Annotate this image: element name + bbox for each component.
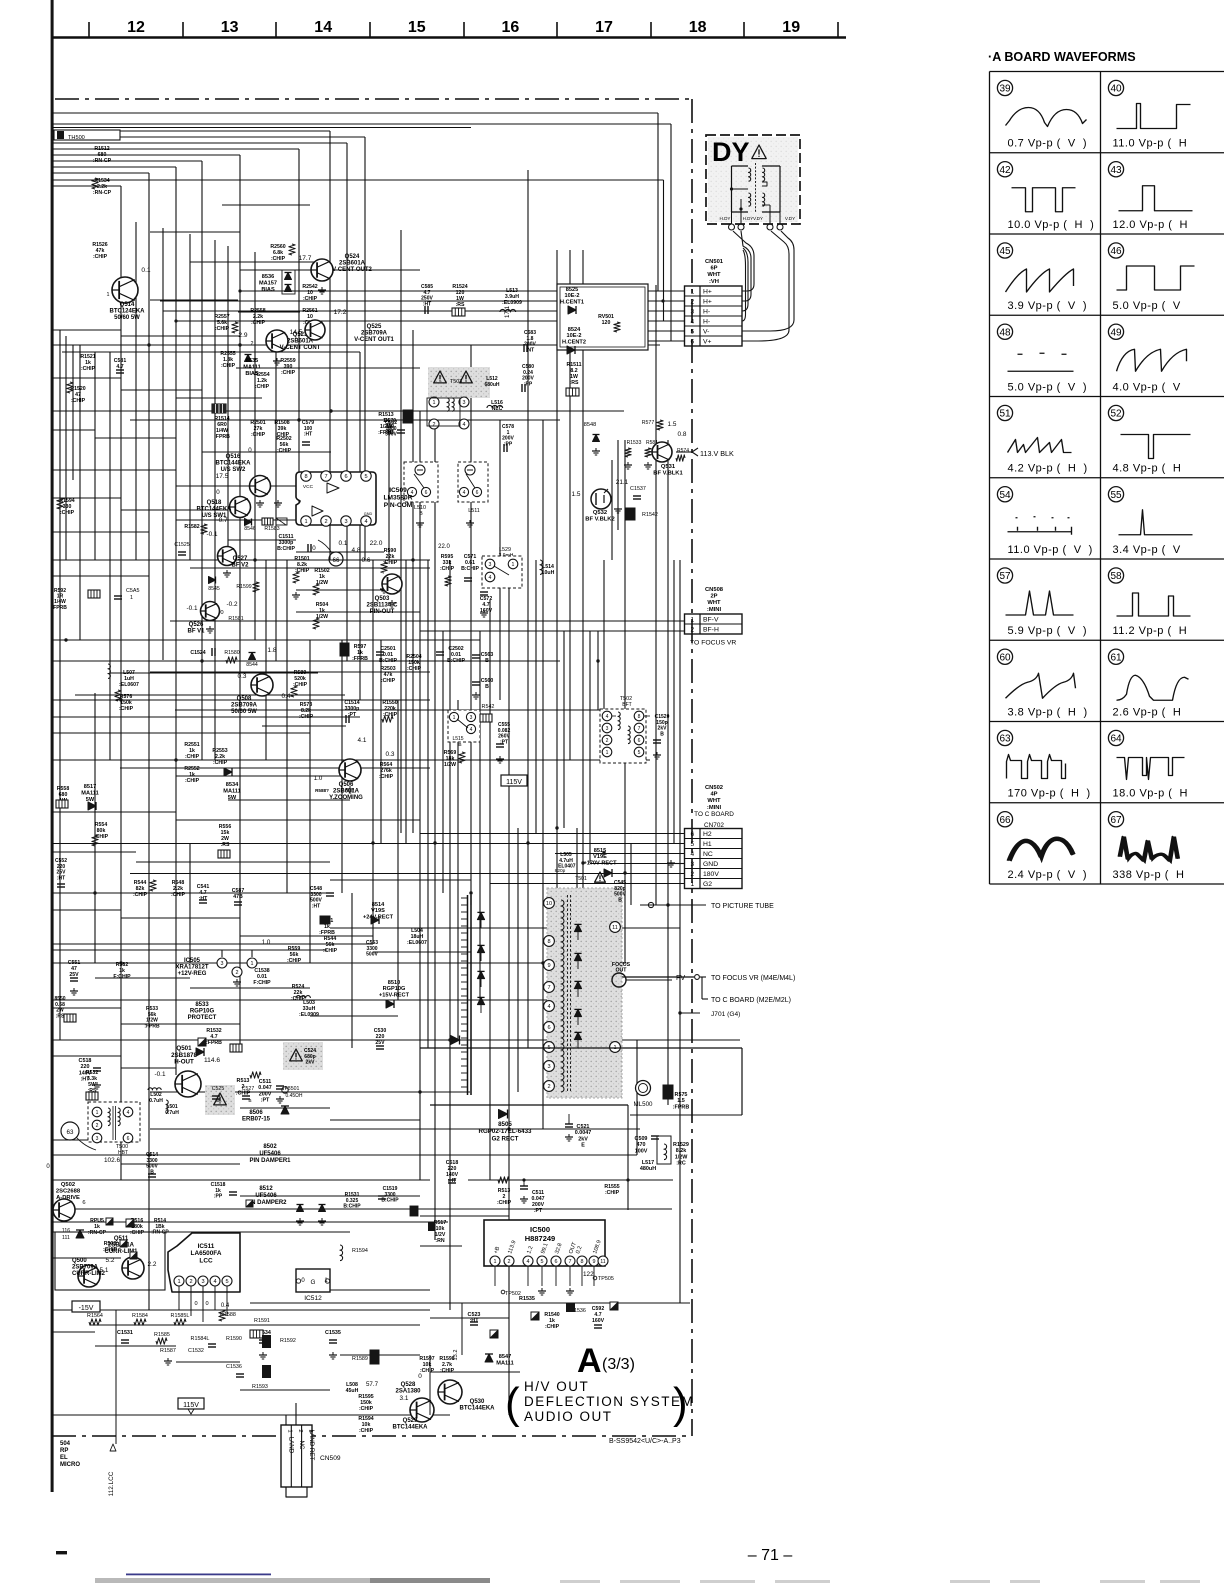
svg-text:6: 6	[690, 339, 694, 346]
svg-text:F:CHIP: F:CHIP	[113, 974, 131, 980]
svg-text:114.6: 114.6	[204, 1057, 220, 1064]
svg-text:338 Vp-p ( H: 338 Vp-p ( H	[1113, 869, 1185, 881]
svg-text:4.1: 4.1	[358, 737, 367, 744]
svg-text:BF V.BLK1: BF V.BLK1	[653, 470, 683, 476]
svg-text:64: 64	[1110, 734, 1122, 745]
svg-text:120: 120	[602, 320, 611, 326]
svg-text:BF-V: BF-V	[703, 617, 719, 624]
svg-text:LA6500FA: LA6500FA	[191, 1250, 222, 1257]
svg-text:4: 4	[213, 1279, 216, 1285]
svg-text:58: 58	[1110, 571, 1122, 582]
svg-text:0: 0	[205, 1301, 208, 1307]
svg-text:820p: 820p	[555, 868, 566, 874]
svg-text:5.1: 5.1	[100, 1267, 109, 1274]
svg-text::RN-CP: :RN-CP	[93, 190, 112, 196]
svg-text:Q528: Q528	[401, 1382, 416, 1388]
svg-text:-0.1: -0.1	[186, 605, 197, 612]
svg-text:49: 49	[1110, 327, 1122, 338]
svg-text::FPRB: :FPRB	[214, 434, 230, 440]
svg-text:5.0 Vp-p ( V ): 5.0 Vp-p ( V )	[1008, 381, 1088, 393]
svg-text:66: 66	[333, 557, 340, 564]
svg-text:54: 54	[999, 490, 1011, 501]
svg-text:63: 63	[67, 1129, 74, 1136]
svg-text:1.5: 1.5	[677, 1098, 685, 1104]
svg-text:4: 4	[527, 1259, 530, 1265]
svg-text:8514: 8514	[372, 902, 385, 908]
svg-text:4: 4	[463, 490, 466, 496]
svg-text:R1529: R1529	[673, 1142, 689, 1148]
svg-text:L511: L511	[468, 508, 480, 514]
svg-text:TO C BOARD: TO C BOARD	[694, 811, 734, 818]
svg-text:8517: 8517	[84, 784, 96, 790]
svg-text:3: 3	[344, 519, 347, 525]
svg-text:R575: R575	[675, 1092, 688, 1098]
svg-text:Q516: Q516	[226, 454, 241, 460]
svg-text:Q518: Q518	[207, 500, 222, 506]
svg-text:IC509: IC509	[389, 487, 407, 494]
svg-text:57: 57	[999, 571, 1011, 582]
svg-text:NC: NC	[298, 1441, 305, 1450]
svg-text:BIAS: BIAS	[261, 287, 275, 293]
svg-text:EL: EL	[60, 1455, 68, 1461]
svg-text:TO C BOARD (M2E/M2L): TO C BOARD (M2E/M2L)	[711, 997, 791, 1004]
svg-text:NC: NC	[703, 851, 713, 858]
svg-text:TH500: TH500	[68, 135, 85, 141]
svg-text:4P: 4P	[710, 792, 717, 798]
svg-text:H.CENT1: H.CENT1	[560, 299, 584, 305]
svg-text::MINI: :MINI	[707, 805, 722, 811]
svg-text:0.3: 0.3	[238, 673, 247, 680]
svg-text:2.6 Vp-p ( H: 2.6 Vp-p ( H	[1113, 706, 1182, 718]
svg-text:Q529: Q529	[403, 1418, 418, 1424]
svg-text:8505: 8505	[498, 1121, 512, 1128]
svg-text:H.CENT2: H.CENT2	[562, 339, 586, 345]
svg-text:8: 8	[547, 939, 550, 945]
svg-text:42: 42	[999, 165, 1011, 176]
svg-text:11.2 Vp-p ( H: 11.2 Vp-p ( H	[1113, 625, 1188, 637]
svg-text:45uH: 45uH	[346, 1388, 359, 1394]
svg-text:CN509: CN509	[320, 1455, 341, 1462]
svg-text:2SB709A: 2SB709A	[361, 331, 388, 337]
svg-text:Q530: Q530	[470, 1399, 485, 1405]
svg-text::CHIP: :CHIP	[323, 948, 338, 954]
svg-text:R1564: R1564	[87, 1313, 103, 1319]
svg-text::CHIP: :CHIP	[287, 958, 302, 964]
svg-text:5: 5	[541, 1259, 544, 1265]
svg-text:(3/3): (3/3)	[602, 1356, 635, 1373]
svg-text:57.7: 57.7	[366, 1381, 379, 1388]
svg-text:3.4 Vp-p ( V: 3.4 Vp-p ( V	[1113, 544, 1181, 556]
svg-text:100V: 100V	[635, 1148, 648, 1154]
svg-text:116: 116	[62, 1228, 70, 1234]
svg-text:DEFLECTION SYSTEM: DEFLECTION SYSTEM	[524, 1394, 694, 1409]
svg-text:2kV: 2kV	[306, 1060, 316, 1066]
svg-text::CHIP: :CHIP	[277, 448, 292, 454]
svg-text:V+: V+	[703, 339, 712, 346]
svg-text:0: 0	[194, 1301, 197, 1307]
svg-text:10: 10	[546, 901, 552, 907]
svg-text:0.4: 0.4	[221, 1303, 230, 1309]
svg-text:5W: 5W	[86, 797, 95, 803]
svg-text:B:CHIP: B:CHIP	[447, 658, 465, 664]
svg-text::HT: :HT	[470, 1318, 480, 1324]
svg-text:V.DY: V.DY	[753, 216, 763, 221]
svg-text:MICRO: MICRO	[60, 1462, 80, 1468]
svg-text:BF V1: BF V1	[187, 629, 205, 635]
svg-text:C1535: C1535	[325, 1330, 341, 1336]
svg-text:A: A	[577, 1342, 602, 1380]
svg-text:12.0 Vp-p ( H: 12.0 Vp-p ( H	[1113, 219, 1188, 231]
svg-text:BTC144EKA: BTC144EKA	[196, 507, 232, 513]
svg-text:9: 9	[593, 1259, 596, 1265]
svg-text:5: 5	[690, 841, 694, 848]
svg-text:Q524: Q524	[345, 254, 360, 260]
svg-text:F:CHIP: F:CHIP	[253, 980, 271, 986]
svg-text:1: 1	[690, 617, 694, 624]
svg-text:IC511: IC511	[198, 1243, 215, 1250]
svg-text:6: 6	[555, 1259, 558, 1265]
svg-text:6: 6	[690, 831, 694, 838]
svg-text:6: 6	[476, 490, 479, 496]
svg-text::FPRB: :FPRB	[673, 1104, 690, 1110]
svg-text:-0.2: -0.2	[226, 601, 237, 608]
svg-text:2kV: 2kV	[578, 1136, 588, 1142]
svg-text:T503: T503	[450, 379, 462, 385]
svg-text:3.1: 3.1	[400, 1395, 409, 1402]
svg-text:C521: C521	[577, 1124, 590, 1130]
svg-text:NLC: NLC	[492, 406, 503, 412]
svg-text:R1599: R1599	[236, 584, 251, 590]
svg-text:63: 63	[999, 734, 1011, 745]
svg-text:170 Vp-p ( H ): 170 Vp-p ( H )	[1008, 788, 1091, 800]
svg-text:BF V2: BF V2	[231, 563, 249, 569]
svg-text:B:CHIP: B:CHIP	[461, 566, 479, 572]
svg-text:B: B	[660, 731, 664, 737]
svg-text:8510: 8510	[388, 980, 400, 986]
svg-text:GND: GND	[364, 512, 373, 516]
svg-text::CHIP: :CHIP	[497, 1200, 512, 1206]
svg-text:2: 2	[96, 1123, 99, 1129]
svg-text::CHIP: :CHIP	[379, 774, 394, 780]
svg-text:V-: V-	[703, 329, 709, 336]
svg-text:22.0: 22.0	[438, 544, 450, 550]
svg-text:47B: 47B	[233, 894, 243, 900]
svg-text:C511: C511	[259, 1079, 272, 1085]
svg-text:17.7: 17.7	[299, 255, 312, 262]
svg-text:5.0 Vp-p ( V: 5.0 Vp-p ( V	[1113, 300, 1181, 312]
svg-text:R1580: R1580	[224, 650, 239, 656]
svg-text:8512: 8512	[259, 1186, 273, 1192]
svg-text:PROTECT: PROTECT	[188, 1015, 217, 1021]
svg-text::CHIP: :CHIP	[545, 1324, 560, 1330]
svg-text:3: 3	[547, 1064, 550, 1070]
svg-text:6: 6	[82, 1200, 85, 1206]
svg-text:– 71 –: – 71 –	[748, 1547, 793, 1564]
svg-text:1.8: 1.8	[267, 647, 276, 654]
svg-text:1/2W: 1/2W	[444, 762, 456, 768]
svg-text:R513: R513	[237, 1078, 250, 1084]
svg-text:R1582: R1582	[184, 524, 199, 530]
svg-text::CHIP: :CHIP	[255, 384, 270, 390]
svg-text:UF5406: UF5406	[255, 1193, 277, 1199]
svg-text::HT: :HT	[423, 301, 431, 307]
svg-text:-0.1: -0.1	[154, 1071, 165, 1078]
svg-text:1: 1	[107, 292, 110, 298]
svg-text:22.0: 22.0	[370, 540, 383, 547]
svg-text:R1542: R1542	[642, 512, 658, 518]
svg-text:8.2k: 8.2k	[676, 1148, 687, 1154]
svg-text:11.0 Vp-p ( H: 11.0 Vp-p ( H	[1113, 138, 1188, 150]
svg-text:25V: 25V	[375, 1040, 385, 1046]
svg-text:BF V.BLK2: BF V.BLK2	[585, 516, 614, 522]
svg-text:BTC124EKA: BTC124EKA	[109, 309, 145, 315]
svg-text:TO FOCUS VR (M4E/M4L): TO FOCUS VR (M4E/M4L)	[711, 975, 795, 982]
svg-text:5: 5	[225, 1279, 228, 1285]
svg-text:MA111: MA111	[223, 788, 240, 794]
svg-text:480uH: 480uH	[640, 1166, 656, 1172]
svg-text:2SC2688: 2SC2688	[56, 1188, 81, 1194]
svg-text:1: 1	[177, 1279, 180, 1285]
svg-text::RN-CP: :RN-CP	[93, 158, 112, 164]
svg-text:112.LCC: 112.LCC	[108, 1471, 115, 1496]
svg-text:UF5406: UF5406	[259, 1151, 281, 1157]
svg-text::HT: :HT	[312, 903, 320, 909]
svg-text:2SB709A: 2SB709A	[231, 703, 258, 709]
svg-text::CHIP: :CHIP	[133, 892, 148, 898]
svg-text:AUDIO OUT: AUDIO OUT	[524, 1409, 613, 1424]
svg-text:3: 3	[96, 1136, 99, 1142]
svg-text::RS: :RS	[570, 380, 579, 386]
svg-text:48: 48	[999, 327, 1011, 338]
svg-text:6: 6	[638, 738, 641, 744]
svg-text:10.0 Vp-p ( H ): 10.0 Vp-p ( H )	[1008, 219, 1095, 231]
svg-text:8536: 8536	[262, 274, 274, 280]
svg-text:B:CHIP: B:CHIP	[343, 1204, 361, 1210]
svg-text:H.DY: H.DY	[720, 216, 731, 221]
svg-text:R574: R574	[677, 448, 689, 454]
svg-text::MINI: :MINI	[707, 607, 722, 613]
svg-text:8: 8	[581, 1259, 584, 1265]
svg-text:17: 17	[595, 19, 613, 36]
svg-text:680uH: 680uH	[484, 382, 499, 388]
svg-text::CHIP: :CHIP	[359, 1406, 374, 1412]
svg-text:16: 16	[502, 19, 520, 36]
svg-text::CHIP: :CHIP	[440, 566, 455, 572]
svg-text:25V: 25V	[69, 972, 79, 978]
svg-text:C5A5: C5A5	[126, 588, 140, 594]
svg-text:1: 1	[453, 715, 456, 721]
svg-text:8506: 8506	[249, 1110, 263, 1116]
svg-text:0.45ΩH: 0.45ΩH	[285, 1093, 302, 1099]
svg-text:4.2 Vp-p ( H ): 4.2 Vp-p ( H )	[1008, 463, 1088, 475]
svg-text:17.5: 17.5	[216, 473, 229, 480]
svg-text:4: 4	[470, 727, 473, 733]
svg-text:2.4 Vp-p ( V ): 2.4 Vp-p ( V )	[1008, 869, 1088, 881]
svg-text:H-: H-	[703, 319, 710, 326]
svg-text:1: 1	[494, 1259, 497, 1265]
svg-text:51: 51	[999, 409, 1011, 420]
svg-text:V-CENT OUT1: V-CENT OUT1	[354, 337, 394, 343]
svg-text::CHIP: :CHIP	[271, 256, 286, 262]
svg-text:R1581: R1581	[228, 616, 243, 622]
svg-text:T501: T501	[575, 876, 587, 882]
svg-text:ML500: ML500	[634, 1101, 653, 1108]
svg-text:160V: 160V	[592, 1318, 605, 1324]
svg-text::PT: :PT	[534, 1208, 543, 1214]
svg-text:1.5: 1.5	[572, 491, 581, 498]
svg-text::CHIP: :CHIP	[251, 432, 266, 438]
svg-text:H887249: H887249	[525, 1234, 555, 1243]
svg-text:10E-2: 10E-2	[567, 333, 582, 339]
svg-text:RGP10G: RGP10G	[190, 1009, 215, 1015]
svg-text:1: 1	[606, 750, 609, 756]
svg-text:61: 61	[1110, 652, 1122, 663]
svg-text:R1535: R1535	[519, 1296, 535, 1302]
svg-text:2: 2	[433, 422, 436, 428]
svg-text:113.V BLK: 113.V BLK	[700, 449, 734, 458]
svg-text:R1594: R1594	[352, 1248, 368, 1254]
svg-text::CHIP: :CHIP	[130, 1230, 145, 1236]
svg-text:C1536: C1536	[226, 1364, 242, 1370]
svg-text:Q531: Q531	[661, 464, 676, 470]
svg-text:Q526: Q526	[189, 622, 204, 628]
svg-text:8534: 8534	[226, 782, 239, 788]
svg-text::HT: :HT	[304, 432, 312, 438]
svg-text::CHIP: :CHIP	[420, 1368, 435, 1374]
svg-text:R1591: R1591	[254, 1318, 270, 1324]
svg-text:V19S: V19S	[371, 908, 385, 914]
svg-text:8515: 8515	[594, 848, 606, 854]
svg-text:10uH: 10uH	[542, 570, 555, 576]
svg-text:LAND: LAND	[288, 1437, 295, 1454]
svg-text:8548: 8548	[584, 422, 596, 428]
svg-text:Q502: Q502	[61, 1182, 75, 1188]
svg-text:ERB07-15: ERB07-15	[242, 1117, 271, 1123]
svg-text:2: 2	[251, 341, 254, 347]
svg-text:5: 5	[364, 474, 367, 480]
svg-text:8: 8	[304, 474, 307, 480]
svg-text:J701 (G4): J701 (G4)	[711, 1011, 740, 1018]
svg-text:9: 9	[547, 963, 550, 969]
svg-text::HT: :HT	[199, 896, 208, 902]
svg-text:PIN-OUT: PIN-OUT	[370, 609, 395, 615]
svg-text:504: 504	[60, 1441, 71, 1447]
svg-text:102.6: 102.6	[104, 1157, 120, 1164]
svg-text:MA157: MA157	[259, 280, 277, 286]
svg-text:5: 5	[690, 329, 694, 336]
svg-text:V19E: V19E	[593, 854, 607, 860]
svg-text:180V: 180V	[703, 871, 719, 878]
svg-text:19: 19	[782, 19, 800, 36]
svg-text::CHIP: :CHIP	[185, 778, 200, 784]
svg-text:0.6: 0.6	[362, 557, 371, 564]
svg-text:1: 1	[96, 1110, 99, 1116]
svg-text::CHIP: :CHIP	[381, 678, 396, 684]
svg-text:0: 0	[418, 1373, 422, 1380]
svg-text:5.2: 5.2	[106, 1257, 115, 1264]
svg-text::RC: :RC	[676, 1161, 686, 1167]
svg-text:1.0: 1.0	[262, 939, 271, 946]
svg-text:2.9: 2.9	[238, 332, 247, 339]
svg-text:2: 2	[690, 299, 694, 306]
svg-text:VCC: VCC	[303, 484, 314, 490]
svg-text:Y.ZOOMING: Y.ZOOMING	[329, 795, 363, 801]
svg-text:11: 11	[612, 925, 618, 931]
svg-text:0.4: 0.4	[282, 693, 291, 700]
svg-text:RGP02-17EL-6433: RGP02-17EL-6433	[479, 1128, 533, 1135]
svg-text:MA111: MA111	[81, 790, 98, 796]
svg-text::PP: :PP	[504, 441, 513, 447]
svg-text:46: 46	[1110, 246, 1122, 257]
svg-text:+12V-REG: +12V-REG	[178, 971, 207, 977]
svg-text:R1592: R1592	[280, 1338, 296, 1344]
svg-text:Q532: Q532	[593, 510, 607, 516]
svg-text::CHIP: :CHIP	[440, 1368, 455, 1374]
svg-text:1: 1	[433, 400, 436, 406]
svg-text:R1585: R1585	[154, 1332, 170, 1338]
svg-text:0.047: 0.047	[258, 1085, 272, 1091]
svg-text:8535: 8535	[246, 358, 258, 364]
svg-text:FPRB: FPRB	[53, 605, 67, 611]
svg-text:B: B	[248, 1098, 251, 1104]
svg-text:8: 8	[638, 714, 641, 720]
svg-text::CHIP: :CHIP	[185, 754, 200, 760]
svg-text:+170V-RECT: +170V-RECT	[583, 860, 617, 866]
svg-text::CHIP: :CHIP	[303, 296, 318, 302]
svg-text:2: 2	[297, 1429, 303, 1432]
svg-text:3: 3	[489, 562, 492, 568]
svg-text:7: 7	[638, 726, 641, 732]
svg-text:8547: 8547	[499, 1354, 511, 1360]
svg-text::FPRB: :FPRB	[352, 656, 368, 662]
svg-text:1: 1	[287, 1429, 293, 1432]
svg-text:IC512: IC512	[304, 1295, 322, 1302]
svg-text:CN501: CN501	[705, 259, 724, 265]
svg-text:·A BOARD WAVEFORMS: ·A BOARD WAVEFORMS	[988, 50, 1136, 64]
svg-text:2.2: 2.2	[148, 1261, 157, 1268]
svg-text:TO PICTURE TUBE: TO PICTURE TUBE	[711, 903, 774, 910]
svg-text:14: 14	[314, 19, 332, 36]
svg-text:(: (	[505, 1379, 520, 1428]
svg-text:4: 4	[127, 1110, 130, 1116]
svg-text:4: 4	[690, 319, 694, 326]
svg-text:C1524: C1524	[190, 650, 205, 656]
svg-text:5: 5	[638, 750, 641, 756]
svg-text:CN502: CN502	[705, 785, 723, 791]
svg-text::CHIP: :CHIP	[60, 510, 75, 516]
svg-text:R1584L: R1584L	[191, 1336, 210, 1342]
svg-text:+15V-RECT: +15V-RECT	[379, 992, 410, 998]
svg-text:55: 55	[1110, 490, 1122, 501]
svg-text:-15V: -15V	[79, 1305, 94, 1312]
svg-text:2: 2	[189, 1279, 192, 1285]
svg-text:B:CHIP: B:CHIP	[277, 546, 295, 552]
svg-text:11.0 Vp-p ( V ): 11.0 Vp-p ( V )	[1008, 544, 1093, 556]
svg-text::VH: :VH	[709, 279, 719, 285]
svg-text:3: 3	[463, 400, 466, 406]
svg-text:15: 15	[408, 19, 426, 36]
svg-text:LAND RET: LAND RET	[308, 1430, 315, 1461]
svg-text:0.8: 0.8	[678, 431, 687, 438]
svg-text:3: 3	[690, 861, 694, 868]
svg-text:4.7: 4.7	[116, 364, 123, 370]
svg-text:V-CENT CONT: V-CENT CONT	[280, 345, 321, 351]
svg-text::FPRB: :FPRB	[206, 1040, 222, 1046]
svg-text:39: 39	[999, 84, 1011, 95]
svg-text:6: 6	[425, 490, 428, 496]
svg-text:0.3: 0.3	[386, 751, 395, 758]
svg-text:B: B	[485, 684, 489, 690]
